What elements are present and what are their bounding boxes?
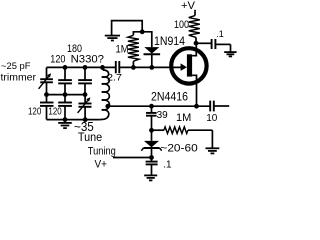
svg-text:~25 pF: ~25 pF bbox=[1, 61, 31, 72]
wire source lead bbox=[196, 86, 198, 107]
ground (top right) bbox=[224, 44, 236, 56]
svg-text:10: 10 bbox=[206, 113, 218, 124]
capacitor 10 (output coupling) bbox=[210, 101, 229, 112]
wire bottom bus bbox=[47, 119, 100, 121]
node: drain junction bbox=[194, 41, 199, 46]
ground (tank) bbox=[58, 120, 72, 129]
svg-text:.1: .1 bbox=[216, 29, 224, 39]
svg-text:2N4416: 2N4416 bbox=[151, 90, 188, 104]
wire source bus bbox=[108, 105, 210, 107]
diode 1N914 bbox=[142, 32, 160, 68]
resistor 1M (bias, horizontal) bbox=[152, 127, 213, 134]
node: tuning input junction bbox=[149, 155, 154, 160]
wire top bus left (tank top) bbox=[47, 66, 116, 68]
svg-text:Tuning: Tuning bbox=[88, 146, 116, 158]
capacitor .1 (tuning bypass) bbox=[146, 158, 158, 176]
node: varactor top junction bbox=[149, 128, 154, 133]
wire tuning input bbox=[113, 157, 152, 159]
svg-text:120: 120 bbox=[28, 107, 42, 118]
capacitor 120 (top row) bbox=[58, 67, 72, 94]
node: top bias junction bbox=[140, 29, 145, 34]
trimmer capacitor ~35 Tune bbox=[78, 95, 92, 120]
node: source junction bbox=[194, 104, 199, 109]
ground (top left) with wire bbox=[105, 21, 142, 41]
node dots on tank buses bbox=[63, 65, 68, 70]
varactor diode ~20-60 bbox=[141, 130, 161, 157]
trimmer capacitor ~25pF bbox=[39, 67, 53, 94]
node: 39 cap junction bbox=[149, 104, 154, 109]
svg-text:N330?: N330? bbox=[71, 53, 104, 65]
capacitor 120 (lower middle) bbox=[58, 95, 72, 120]
capacitor N330 (top row) bbox=[78, 67, 92, 94]
svg-text:1M: 1M bbox=[176, 112, 191, 124]
capacitor 120 (lower left) bbox=[40, 95, 54, 120]
capacitor 39 (feedback) bbox=[146, 106, 157, 130]
svg-text:1M: 1M bbox=[116, 43, 129, 55]
svg-text:100: 100 bbox=[174, 19, 189, 31]
svg-text:1N914: 1N914 bbox=[154, 34, 185, 48]
wire drain lead bbox=[195, 43, 197, 46]
svg-text:39: 39 bbox=[157, 110, 169, 121]
svg-text:.1: .1 bbox=[163, 160, 172, 171]
capacitor 2.7 (series gate coupling) bbox=[116, 61, 120, 73]
svg-text:V+: V+ bbox=[95, 158, 108, 170]
node: coil tap junction bbox=[105, 104, 110, 109]
resistor 100 (drain, vertical sketchy) bbox=[189, 11, 200, 43]
capacitor .1 (drain bypass) bbox=[196, 39, 231, 49]
svg-text:120: 120 bbox=[50, 53, 65, 65]
svg-text:+V: +V bbox=[181, 0, 196, 12]
ground (mid right) bbox=[206, 130, 220, 153]
wire gate bus bbox=[119, 66, 181, 68]
resistor 1M (gate, vertical sketchy) bbox=[128, 32, 142, 68]
transistor Q1 2N4416 (JFET) bbox=[171, 47, 206, 86]
svg-text:120: 120 bbox=[48, 107, 62, 118]
inductor L1 (tapped coil) bbox=[100, 67, 110, 119]
node: diode junction on gate bbox=[149, 65, 154, 70]
svg-text:trimmer: trimmer bbox=[1, 72, 37, 83]
svg-text:2.7: 2.7 bbox=[107, 72, 122, 83]
svg-text:~20-60: ~20-60 bbox=[160, 142, 197, 154]
node: gate resistor junction bbox=[131, 65, 136, 70]
wire middle bus bbox=[47, 94, 86, 96]
svg-text:Tune: Tune bbox=[78, 132, 102, 144]
+V supply lead bbox=[194, 10, 196, 11]
ground (bottom) bbox=[144, 175, 157, 180]
